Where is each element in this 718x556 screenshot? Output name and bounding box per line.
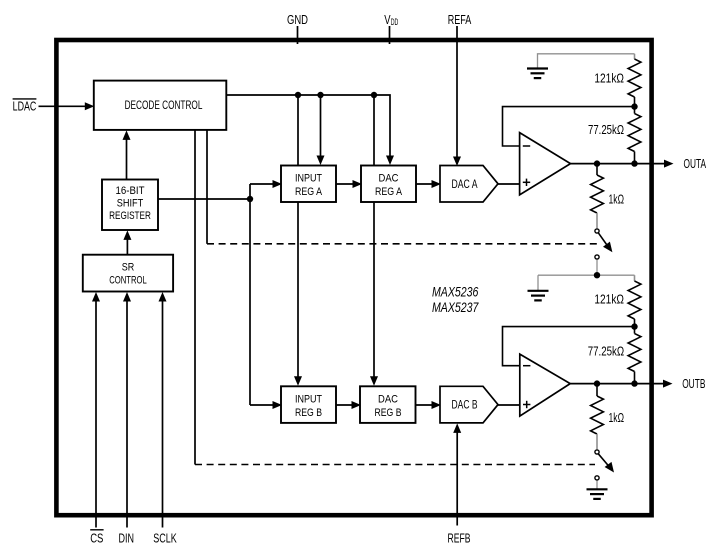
svg-text:CS: CS	[90, 531, 103, 546]
svg-text:REGISTER: REGISTER	[109, 210, 151, 222]
wire INPUT REG B to DAC REG B	[336, 401, 361, 409]
wire decode control to dashed A	[206, 130, 208, 244]
wire REFA input to DAC A	[453, 26, 461, 166]
wire op-amp A output	[571, 160, 674, 168]
wire DAC A to op-amp A	[498, 183, 520, 185]
node output B 1	[594, 380, 600, 386]
wire decode control to dashed B	[194, 130, 196, 465]
node feedback B	[631, 323, 637, 329]
svg-text:REFA: REFA	[448, 13, 472, 27]
svg-text:REG A: REG A	[295, 186, 323, 198]
wire op-amp A feedback	[503, 107, 635, 146]
wire VDD pin stub	[389, 26, 391, 44]
pin DIN label	[119, 531, 135, 546]
resistor 77.25k A	[588, 107, 641, 164]
svg-text:LDAC: LDAC	[13, 99, 37, 113]
svg-text:DAC: DAC	[379, 173, 399, 185]
svg-text:REG B: REG B	[375, 407, 402, 419]
wire DAC REG B to DAC B	[416, 401, 442, 409]
block INPUT REG A	[281, 166, 336, 203]
pin SCLK label	[153, 531, 177, 546]
svg-text:SR: SR	[122, 262, 135, 274]
label MAX5236 MAX5237	[432, 285, 479, 315]
pin GND label	[287, 13, 308, 27]
resistor 77.25k B	[588, 327, 641, 384]
pin REFA label	[448, 13, 472, 27]
svg-text:MAX5236: MAX5236	[432, 285, 479, 300]
block DAC REG A	[361, 166, 416, 203]
node output B 2	[631, 380, 637, 386]
svg-text:77.25kΩ: 77.25kΩ	[588, 344, 625, 358]
svg-text:77.25kΩ: 77.25kΩ	[588, 123, 624, 137]
block SR CONTROL	[83, 255, 173, 292]
pin OUTB label	[682, 377, 705, 391]
block DAC REG B	[360, 386, 416, 423]
svg-text:MAX5237: MAX5237	[432, 300, 479, 315]
svg-text:DIN: DIN	[119, 531, 135, 546]
node feedback A	[631, 103, 637, 109]
svg-text:GND: GND	[287, 13, 308, 27]
wire shift register to registers junction	[158, 180, 282, 409]
ground bottom	[587, 489, 608, 499]
node output A 1	[594, 160, 600, 166]
wire INPUT REG A to DAC REG A	[336, 180, 362, 188]
wire SCLK input	[159, 292, 167, 528]
wire SR control up to shift register	[123, 230, 131, 254]
block 16-BIT SHIFT REGISTER	[102, 180, 158, 231]
svg-text:1kΩ: 1kΩ	[609, 411, 625, 425]
block DECODE CONTROL	[94, 81, 227, 130]
dac DAC B	[440, 386, 498, 423]
wire switch A node to ground and 121k B	[538, 275, 635, 291]
wire ground A to 121k	[538, 54, 635, 69]
pin OUTA label	[684, 157, 707, 171]
svg-text:16-BIT: 16-BIT	[116, 185, 145, 197]
wire bus drop through to INPUT REG B	[294, 95, 302, 386]
svg-text:DAC: DAC	[378, 393, 398, 405]
block INPUT REG B	[281, 386, 336, 423]
op-amp U1	[520, 133, 571, 195]
svg-text:DECODE CONTROL: DECODE CONTROL	[125, 98, 203, 112]
svg-text:DAC B: DAC B	[452, 400, 478, 412]
resistor 1k A	[591, 164, 624, 229]
svg-text:INPUT: INPUT	[295, 393, 322, 405]
wire REFB input to DAC B	[453, 423, 461, 525]
node bus junction 3	[371, 92, 377, 98]
svg-text:121kΩ: 121kΩ	[594, 293, 624, 307]
wire GND pin stub	[297, 26, 299, 44]
wire dashed control line B	[195, 464, 595, 466]
svg-text:DAC A: DAC A	[452, 179, 478, 191]
svg-text:SHIFT: SHIFT	[117, 198, 144, 210]
wire DAC B to op-amp B	[498, 404, 520, 406]
node output A 2	[631, 160, 637, 166]
op-amp U2	[520, 354, 570, 416]
resistor 121k A	[594, 54, 641, 107]
svg-text:DD: DD	[391, 17, 399, 27]
svg-text:121kΩ: 121kΩ	[594, 72, 624, 86]
node mid	[594, 272, 600, 278]
svg-text:REG A: REG A	[375, 186, 403, 198]
wire op-amp B output	[570, 380, 672, 388]
ground A	[527, 69, 548, 79]
wire decode-control output bus	[226, 95, 394, 165]
resistor 121k B	[594, 275, 641, 326]
resistor 1k B	[591, 384, 624, 450]
wire CS input	[92, 292, 100, 528]
node bus junction 1	[295, 92, 301, 98]
node shift register data junction	[247, 196, 253, 202]
svg-text:INPUT: INPUT	[295, 173, 322, 185]
wire op-amp B feedback	[503, 327, 635, 366]
wire shift register up to decode control	[123, 130, 131, 179]
wire DAC REG A to DAC A	[416, 180, 441, 188]
svg-text:SCLK: SCLK	[153, 531, 177, 546]
wire dashed control line A	[207, 243, 598, 245]
pin CS label	[90, 530, 103, 546]
wire bus drop through to DAC REG B	[370, 95, 378, 386]
pin LDAC label	[13, 99, 37, 113]
ground mid	[528, 291, 549, 301]
svg-text:OUTB: OUTB	[682, 377, 705, 391]
chip boundary	[56, 40, 651, 515]
svg-text:CONTROL: CONTROL	[109, 275, 147, 287]
dac DAC A	[440, 166, 498, 203]
node bus junction 2	[317, 92, 323, 98]
wire LDAC input	[39, 102, 95, 110]
switch B	[595, 450, 614, 489]
svg-text:REFB: REFB	[448, 531, 471, 546]
svg-text:REG B: REG B	[295, 407, 322, 419]
wire DIN input	[123, 292, 131, 528]
pin REFB label	[448, 531, 471, 546]
switch A	[595, 229, 613, 273]
svg-text:OUTA: OUTA	[684, 157, 707, 171]
svg-text:1kΩ: 1kΩ	[609, 192, 625, 206]
wire bus drop to INPUT REG A	[317, 95, 325, 165]
pin VDD label	[384, 13, 398, 27]
